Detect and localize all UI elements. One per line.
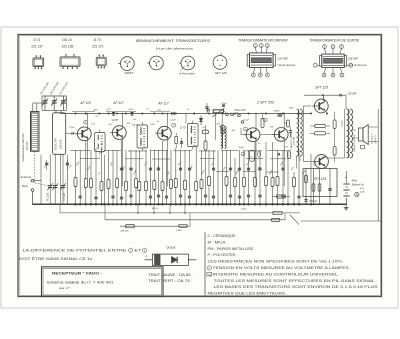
- svg-text:1 430: 1 430: [176, 229, 182, 232]
- svg-text:e c: e c: [126, 60, 129, 62]
- svg-text:Antenne: Antenne: [19, 175, 31, 179]
- svg-text:226 048: 226 048: [293, 136, 296, 146]
- svg-text:50µF: 50µF: [93, 110, 99, 112]
- svg-text:NEGATIVES QUE LES EMETTEURS: NEGATIVES QUE LES EMETTEURS .: [208, 292, 288, 296]
- svg-text:SFT 125: SFT 125: [314, 177, 326, 181]
- svg-text:Vue de dessous: Vue de dessous: [349, 64, 368, 67]
- svg-text:SFT 125: SFT 125: [215, 71, 227, 75]
- svg-text:+: +: [344, 176, 346, 180]
- svg-text:LES BASES DES TRANSISTORS: LES BASES DES TRANSISTORS SONT ENVIRON D…: [214, 285, 378, 289]
- svg-text:226 048: 226 048: [277, 57, 289, 61]
- svg-text:AF 117: AF 117: [112, 101, 124, 105]
- svg-text:0,5µF: 0,5µF: [241, 209, 247, 211]
- svg-text:0,1: 0,1: [96, 116, 99, 118]
- svg-text:DIODE: DIODE: [166, 245, 175, 249]
- svg-text:226 035: 226 035: [120, 231, 130, 233]
- svg-text:0,5µF: 0,5µF: [239, 147, 245, 149]
- svg-text:Ecouteur 6: Ecouteur 6: [371, 133, 374, 144]
- svg-text:INTENSITE MESUREE AU CONTRO: INTENSITE MESUREE AU CONTROLEUR UNIVERSE…: [213, 272, 341, 276]
- svg-text:50µF: 50µF: [129, 109, 135, 111]
- svg-text:0,1µF: 0,1µF: [244, 120, 250, 122]
- svg-text:D 73: D 73: [180, 126, 186, 130]
- svg-text:0,1µF: 0,1µF: [69, 127, 75, 129]
- svg-text:Prise PU: Prise PU: [235, 108, 247, 112]
- svg-text:TRANSFO DRIVER: TRANSFO DRIVER: [290, 130, 293, 150]
- svg-text:226 049: 226 049: [347, 93, 357, 96]
- svg-text:OA 85: OA 85: [112, 119, 119, 122]
- svg-text:Batterie 9v: Batterie 9v: [352, 184, 365, 187]
- svg-text:le Point repère: le Point repère: [179, 73, 195, 76]
- svg-text:0,1: 0,1: [147, 109, 150, 111]
- svg-text:TRANSFORMATEUR DRIVER: TRANSFORMATEUR DRIVER: [238, 38, 288, 42]
- svg-text:AF 115: AF 115: [79, 101, 91, 105]
- svg-text:TRAIT VERT : OA 79 .: TRAIT VERT : OA 79 .: [148, 279, 192, 283]
- svg-text:DD 14: DD 14: [62, 38, 72, 42]
- svg-text:Condensateur 226 023: Condensateur 226 023: [21, 133, 25, 162]
- svg-text:TRAIT JAUNE : OA 85 .: TRAIT JAUNE : OA 85 .: [148, 273, 193, 277]
- svg-text:221 137: 221 137: [31, 45, 43, 49]
- svg-text:Vue de dessous: Vue de dessous: [156, 46, 194, 50]
- svg-text:SFT 125: SFT 125: [315, 85, 328, 89]
- svg-text:50µF: 50µF: [289, 108, 295, 110]
- svg-text:TRANSFO SORTIE: TRANSFO SORTIE: [353, 134, 356, 152]
- svg-text:0,1A: 0,1A: [360, 191, 365, 194]
- svg-text:BRANCHEMENT TRANSISTORS: BRANCHEMENT TRANSISTORS: [136, 39, 211, 43]
- svg-text:0,5µF: 0,5µF: [222, 103, 228, 105]
- svg-text:PM : PAPIER METALLISE .: PM : PAPIER METALLISE .: [208, 247, 256, 251]
- svg-text:C : CERAMIQUE .: C : CERAMIQUE .: [208, 234, 238, 238]
- svg-text:CV 226: CV 226: [63, 192, 66, 201]
- svg-text:226 013: 226 013: [58, 139, 62, 150]
- svg-text:P : POLYESTER .: P : POLYESTER .: [208, 253, 238, 257]
- svg-text:TOUTES LES MESURES SONT EF: TOUTES LES MESURES SONT EFFECTUEES EN PI…: [214, 279, 378, 283]
- svg-text:Terre: Terre: [21, 184, 28, 188]
- svg-text:e c: e c: [186, 59, 189, 61]
- svg-text:DRIFT: DRIFT: [124, 71, 134, 75]
- svg-text:AP 4,5: AP 4,5: [151, 207, 159, 210]
- svg-text:DOIT ÊTRE SANS SIGNAL CE: DOIT ÊTRE SANS SIGNAL CE 1v .: [19, 256, 95, 261]
- svg-text:PO 226: PO 226: [47, 192, 50, 201]
- svg-text:0,15 µF: 0,15 µF: [342, 119, 344, 127]
- svg-text:OA 90: OA 90: [132, 124, 139, 127]
- svg-text:221 138: 221 138: [62, 45, 74, 49]
- svg-text:ET: ET: [135, 248, 142, 252]
- svg-text:D 73: D 73: [94, 38, 101, 42]
- svg-text:LA DIFFERENCE DE POTENTIEL: LA DIFFERENCE DE POTENTIEL ENTRE: [23, 248, 128, 252]
- svg-text:PO GO: PO GO: [25, 141, 29, 150]
- svg-text:+: +: [145, 254, 147, 258]
- svg-text:e c: e c: [155, 59, 158, 61]
- svg-text:RECEPTEUR " FADO -: RECEPTEUR " FADO -: [52, 272, 103, 276]
- svg-text:D 71: D 71: [33, 38, 40, 42]
- svg-text:470µF: 470µF: [274, 110, 281, 113]
- svg-text:( 23 017 ): ( 23 017 ): [375, 135, 377, 144]
- svg-text:Vue de dessous: Vue de dessous: [278, 64, 297, 67]
- svg-text:2 SFT 353: 2 SFT 353: [256, 100, 274, 104]
- svg-text:226 049: 226 049: [347, 57, 359, 61]
- svg-text:AF 117: AF 117: [157, 101, 169, 105]
- svg-text:TRANSFORMATEUR DE SORTIE: TRANSFORMATEUR DE SORTIE: [309, 38, 359, 42]
- svg-text:Piles: Piles: [352, 180, 358, 183]
- svg-text:BLOC HF: BLOC HF: [54, 138, 58, 150]
- svg-text:1,4 µF: 1,4 µF: [170, 118, 177, 121]
- svg-text:500 µF: 500 µF: [310, 200, 318, 203]
- svg-text:LES RESISTANCES NON SPECIFI: LES RESISTANCES NON SPECIFIEES SONT DE ½…: [208, 260, 345, 264]
- svg-text:Schéma valable du n° 7 400: Schéma valable du n° 7 400 001: [47, 281, 114, 285]
- svg-text:TENSION EN VOLTS MESUREE A: TENSION EN VOLTS MESUREE AU VOLTMETRE A …: [213, 266, 352, 270]
- svg-text:M : MICA .: M : MICA .: [208, 240, 228, 244]
- svg-text:221 171: 221 171: [92, 45, 104, 49]
- svg-text:au n°: au n°: [59, 286, 70, 290]
